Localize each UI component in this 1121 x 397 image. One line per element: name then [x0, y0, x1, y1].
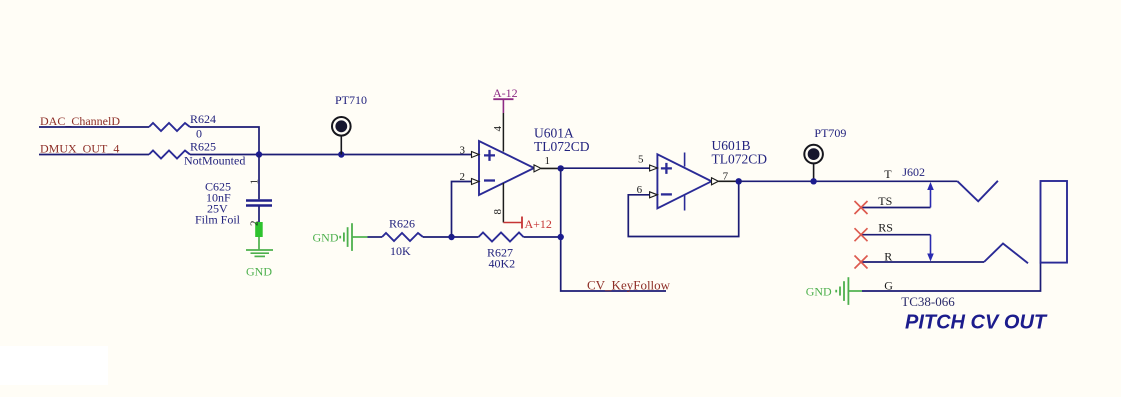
svg-text:NotMounted: NotMounted	[184, 154, 245, 168]
svg-text:DMUX_OUT_4: DMUX_OUT_4	[40, 142, 119, 156]
svg-text:RS: RS	[878, 221, 893, 235]
pin number 5	[638, 154, 644, 166]
wire (U601A out to U601B in)	[561, 167, 650, 169]
pin number 2	[460, 171, 466, 183]
jack sleeve body	[1041, 181, 1068, 263]
pin R	[862, 244, 1028, 264]
node CV_KeyFollow	[587, 278, 671, 293]
svg-text:Film Foil: Film Foil	[195, 213, 241, 227]
svg-text:PITCH CV OUT: PITCH CV OUT	[905, 312, 1048, 334]
svg-text:R625: R625	[190, 140, 216, 154]
junction	[256, 151, 262, 157]
connector J602	[902, 165, 925, 179]
svg-text:CV_KeyFollow: CV_KeyFollow	[587, 278, 671, 293]
no-connect X (RS)	[855, 228, 868, 241]
svg-text:T: T	[884, 167, 892, 181]
svg-text:TC38-066: TC38-066	[901, 294, 955, 309]
pin number 3	[460, 145, 466, 157]
pin number 7	[723, 171, 729, 183]
op-amp U601A	[479, 126, 590, 196]
part number TC38-066	[901, 294, 955, 309]
ground (left, at R626)	[313, 223, 368, 251]
pin number 1 (C625)	[249, 179, 261, 185]
wire	[39, 154, 149, 156]
pin TS	[862, 182, 934, 208]
pin 1 wire	[541, 167, 561, 169]
svg-text:TL072CD: TL072CD	[534, 139, 590, 154]
junction	[338, 151, 344, 157]
pin 6 arrow	[650, 192, 658, 198]
pin 7 output arrow	[712, 178, 719, 185]
power port A-12	[493, 86, 518, 113]
ground (right, at G pin)	[806, 277, 862, 305]
svg-text:GND: GND	[246, 265, 272, 279]
svg-text:J602: J602	[902, 165, 925, 179]
wire	[39, 126, 149, 128]
svg-text:A-12: A-12	[493, 86, 518, 100]
pin 2 arrow	[472, 179, 480, 185]
svg-text:1: 1	[249, 179, 261, 185]
pin G	[862, 263, 1041, 293]
capacitor C625	[195, 155, 272, 227]
resistor R626	[382, 217, 423, 259]
pin 3 arrow	[472, 152, 480, 158]
power port A+12	[503, 217, 552, 232]
title PITCH CV OUT	[905, 312, 1048, 334]
svg-text:8: 8	[492, 209, 504, 215]
pin RS	[862, 221, 934, 262]
power pin 8	[492, 183, 504, 223]
svg-text:TL072CD: TL072CD	[712, 152, 768, 167]
svg-text:1: 1	[545, 155, 551, 167]
svg-text:U601B: U601B	[712, 138, 751, 153]
pin 5 arrow	[650, 165, 658, 171]
resistor R624	[149, 112, 216, 141]
svg-text:7: 7	[723, 171, 729, 183]
testpoint PT709	[804, 126, 846, 181]
pin number 6	[637, 184, 643, 196]
svg-text:40K2: 40K2	[489, 257, 516, 271]
wire	[423, 236, 479, 238]
pin number 1	[545, 155, 551, 167]
no-connect X (R)	[855, 256, 868, 269]
svg-text:R626: R626	[389, 217, 415, 231]
svg-text:GND: GND	[313, 231, 339, 245]
no-connect X (TS)	[855, 201, 868, 214]
svg-text:5: 5	[638, 154, 644, 166]
svg-text:GND: GND	[806, 285, 832, 299]
resistor R625	[149, 140, 245, 168]
junction (output U601B)	[736, 178, 742, 184]
junction (PT709)	[810, 178, 816, 184]
wire	[524, 236, 561, 238]
wire (to pin 2)	[452, 182, 472, 238]
ground (C625)	[246, 237, 273, 279]
svg-text:4: 4	[492, 126, 504, 132]
wire (down to R627 and CV)	[561, 168, 666, 291]
white patch bottom-left	[0, 346, 108, 385]
pin 7 wire	[718, 180, 738, 182]
power pin 4	[492, 113, 504, 152]
wire (output to jack T)	[739, 180, 958, 182]
svg-text:2: 2	[460, 171, 466, 183]
resistor R627	[479, 233, 524, 271]
node DMUX_OUT_4	[40, 142, 119, 156]
svg-text:TS: TS	[878, 194, 892, 208]
svg-text:R624: R624	[190, 112, 216, 126]
wire	[368, 236, 383, 238]
svg-text:PT709: PT709	[814, 126, 846, 140]
pin 1 output arrow	[534, 165, 541, 172]
wire (pin 6 feedback)	[628, 181, 738, 236]
svg-text:0: 0	[196, 127, 202, 141]
testpoint PT710	[332, 93, 367, 155]
wire	[190, 127, 259, 155]
svg-text:DAC_ChannelD: DAC_ChannelD	[40, 114, 120, 128]
junction (output U601A)	[558, 165, 564, 171]
svg-text:A+12: A+12	[525, 217, 552, 231]
highlighted pin (green)	[255, 222, 263, 237]
op-amp U601B	[657, 138, 767, 211]
svg-text:10K: 10K	[390, 244, 411, 258]
junction (R627 tee)	[558, 234, 564, 240]
junction	[448, 234, 454, 240]
pin T	[884, 167, 998, 201]
wire	[190, 154, 472, 156]
svg-text:3: 3	[460, 145, 466, 157]
node DAC_ChannelD	[40, 114, 120, 128]
pin number 2 (C625)	[249, 221, 261, 227]
svg-text:PT710: PT710	[335, 93, 367, 107]
svg-text:2: 2	[249, 221, 261, 227]
